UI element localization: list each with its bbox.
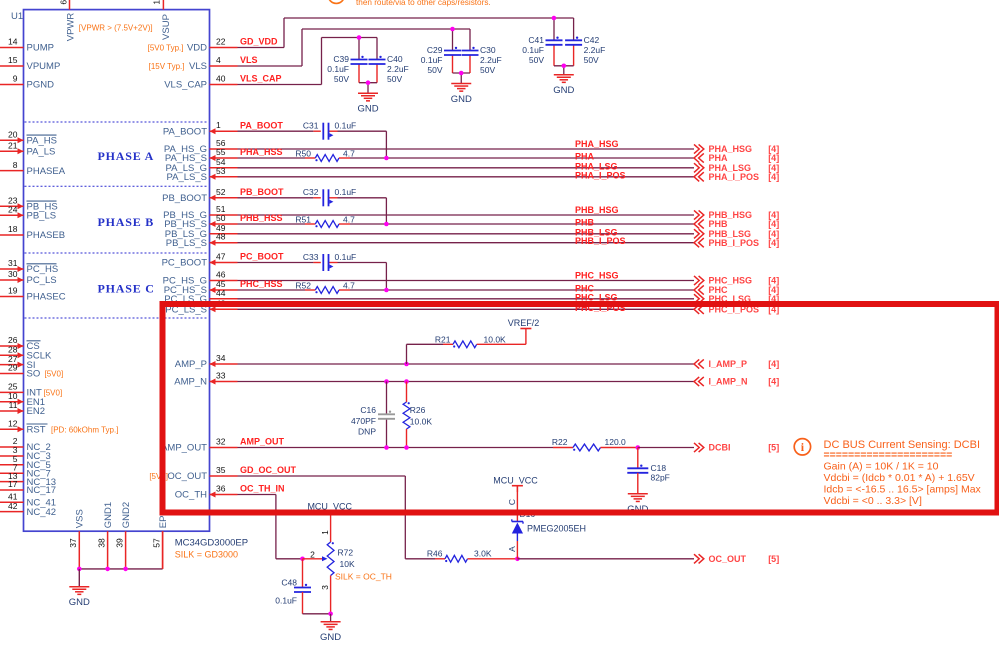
svg-text:EN2: EN2 — [27, 406, 45, 417]
svg-text:GND: GND — [320, 632, 341, 643]
svg-text:C41: C41 — [528, 35, 544, 45]
svg-text:PHC_LSG: PHC_LSG — [575, 292, 618, 302]
svg-text:[5]: [5] — [768, 554, 779, 564]
svg-text:PHB_I_POS: PHB_I_POS — [575, 236, 626, 246]
svg-text:22: 22 — [216, 37, 226, 47]
svg-text:A: A — [507, 546, 517, 552]
svg-text:GD_OC_OUT: GD_OC_OUT — [240, 465, 297, 475]
svg-text:VREF/2: VREF/2 — [508, 318, 540, 328]
svg-text:[VPWR > (7.5V+2V)]: [VPWR > (7.5V+2V)] — [79, 24, 153, 33]
svg-text:SILK = OC_TH: SILK = OC_TH — [335, 572, 392, 582]
svg-text:[4]: [4] — [768, 219, 779, 229]
svg-text:2.2uF: 2.2uF — [387, 64, 409, 74]
svg-text:NC_17: NC_17 — [27, 485, 57, 496]
svg-text:0.1uF: 0.1uF — [335, 121, 357, 131]
svg-text:3.0K: 3.0K — [474, 548, 492, 558]
svg-text:EP: EP — [158, 516, 169, 529]
svg-text:[4]: [4] — [768, 276, 779, 286]
svg-text:VSS: VSS — [75, 509, 86, 528]
svg-text:50V: 50V — [387, 74, 402, 84]
svg-text:[4]: [4] — [768, 153, 779, 163]
svg-text:35: 35 — [216, 465, 226, 475]
svg-text:14: 14 — [8, 37, 18, 47]
svg-text:50: 50 — [216, 213, 226, 223]
svg-text:C: C — [507, 499, 517, 505]
svg-text:33: 33 — [216, 371, 226, 381]
svg-text:44: 44 — [216, 288, 226, 298]
svg-text:[5V0 Typ.]: [5V0 Typ.] — [148, 44, 184, 53]
svg-text:VLS: VLS — [240, 55, 258, 65]
svg-text:NC_42: NC_42 — [27, 507, 57, 518]
svg-text:AMP_P: AMP_P — [175, 359, 207, 370]
svg-text:2.2uF: 2.2uF — [584, 45, 606, 55]
svg-text:PHB: PHB — [575, 218, 595, 228]
svg-text:PHB_HSG: PHB_HSG — [575, 205, 619, 215]
svg-text:0.1uF: 0.1uF — [335, 187, 357, 197]
svg-text:VPWR: VPWR — [65, 13, 76, 42]
svg-text:34: 34 — [216, 353, 226, 363]
svg-text:OC_OUT: OC_OUT — [167, 471, 207, 482]
svg-text:U1: U1 — [11, 11, 23, 22]
svg-text:30: 30 — [8, 269, 18, 279]
svg-text:VSUP: VSUP — [161, 14, 172, 40]
svg-text:9: 9 — [13, 74, 18, 84]
svg-text:PHASE C: PHASE C — [98, 282, 155, 296]
svg-text:OC_OUT: OC_OUT — [709, 554, 747, 564]
svg-text:PA_HS: PA_HS — [27, 136, 57, 147]
svg-text:50V: 50V — [480, 65, 495, 75]
svg-text:40: 40 — [216, 74, 226, 84]
svg-text:GND: GND — [69, 597, 90, 608]
svg-text:38: 38 — [96, 538, 106, 548]
svg-text:PHA_I_POS: PHA_I_POS — [709, 172, 760, 182]
svg-text:MCU_VCC: MCU_VCC — [493, 476, 538, 486]
svg-text:C40: C40 — [387, 54, 403, 64]
svg-text:36: 36 — [216, 484, 226, 494]
svg-text:C32: C32 — [303, 187, 319, 197]
svg-text:0.1uF: 0.1uF — [421, 55, 443, 65]
svg-text:50V: 50V — [427, 65, 442, 75]
svg-text:C30: C30 — [480, 45, 496, 55]
svg-text:C42: C42 — [584, 35, 600, 45]
svg-text:2.2uF: 2.2uF — [480, 55, 502, 65]
svg-text:PGND: PGND — [27, 80, 55, 91]
svg-text:C33: C33 — [303, 252, 319, 262]
svg-text:PHA_HSS: PHA_HSS — [240, 147, 283, 157]
svg-text:31: 31 — [8, 258, 18, 268]
svg-text:55: 55 — [216, 147, 226, 157]
svg-text:48: 48 — [216, 232, 226, 242]
svg-text:then route/via to other caps/r: then route/via to other caps/resistors. — [356, 0, 491, 7]
svg-text:PHB_I_POS: PHB_I_POS — [709, 238, 760, 248]
svg-text:Vdcbi = (Idcb * 0.01 * A) + 1.: Vdcbi = (Idcb * 0.01 * A) + 1.65V — [824, 472, 975, 484]
svg-text:PHA: PHA — [709, 153, 729, 163]
svg-text:[5V0]: [5V0] — [45, 370, 64, 379]
svg-text:VPUMP: VPUMP — [27, 61, 61, 72]
svg-text:C39: C39 — [333, 54, 349, 64]
svg-text:4.7: 4.7 — [343, 215, 355, 225]
svg-text:Idcb = <-16.5 .. 16.5> [amps]: Idcb = <-16.5 .. 16.5> [amps] Max — [824, 484, 982, 496]
svg-text:2: 2 — [310, 549, 315, 559]
svg-text:10.0K: 10.0K — [484, 335, 507, 345]
svg-text:GND1: GND1 — [103, 502, 114, 528]
svg-text:[15V Typ.]: [15V Typ.] — [149, 62, 185, 71]
svg-text:AMP_OUT: AMP_OUT — [161, 443, 207, 454]
svg-text:[4]: [4] — [768, 359, 779, 369]
svg-text:PB_LS_S: PB_LS_S — [166, 238, 207, 249]
svg-text:C48: C48 — [281, 577, 297, 587]
svg-text:DNP: DNP — [358, 426, 376, 436]
svg-text:PHB_HSS: PHB_HSS — [240, 213, 283, 223]
svg-text:18: 18 — [8, 224, 18, 234]
svg-text:PA_LS_S: PA_LS_S — [167, 172, 208, 183]
svg-text:46: 46 — [216, 270, 226, 280]
svg-text:17: 17 — [8, 479, 18, 489]
svg-text:SO: SO — [27, 369, 41, 380]
svg-text:PA_BOOT: PA_BOOT — [163, 126, 207, 137]
svg-text:0.1uF: 0.1uF — [522, 45, 544, 55]
svg-text:PA_LS: PA_LS — [27, 147, 56, 158]
svg-text:3: 3 — [320, 585, 330, 590]
svg-text:21: 21 — [8, 141, 18, 151]
svg-text:PB_BOOT: PB_BOOT — [240, 187, 284, 197]
svg-text:VLS: VLS — [189, 61, 207, 72]
svg-text:PA_BOOT: PA_BOOT — [240, 120, 283, 130]
svg-text:4.7: 4.7 — [343, 149, 355, 159]
svg-text:MC34GD3000EP: MC34GD3000EP — [175, 538, 248, 549]
svg-text:8: 8 — [13, 160, 18, 170]
svg-text:DCBI: DCBI — [709, 443, 731, 453]
svg-text:19: 19 — [8, 286, 18, 296]
svg-text:PC_BOOT: PC_BOOT — [162, 258, 208, 269]
svg-text:PB_BOOT: PB_BOOT — [162, 193, 207, 204]
svg-text:[4]: [4] — [768, 238, 779, 248]
svg-text:57: 57 — [151, 538, 161, 548]
svg-text:PUMP: PUMP — [27, 43, 54, 54]
svg-text:0.1uF: 0.1uF — [275, 595, 297, 605]
svg-text:[5V0]: [5V0] — [44, 389, 63, 398]
svg-text:R21: R21 — [435, 335, 451, 345]
svg-text:32: 32 — [216, 437, 226, 447]
svg-text:PHASEC: PHASEC — [27, 292, 66, 303]
svg-text:82pF: 82pF — [651, 473, 670, 483]
svg-text:39: 39 — [114, 538, 124, 548]
svg-text:PHASE B: PHASE B — [98, 215, 155, 229]
svg-text:GND: GND — [451, 94, 472, 105]
svg-text:120.0: 120.0 — [605, 437, 627, 447]
svg-text:12: 12 — [8, 418, 18, 428]
svg-text:4.7: 4.7 — [343, 281, 355, 291]
svg-text:R51: R51 — [295, 215, 311, 225]
svg-text:R52: R52 — [295, 281, 311, 291]
svg-text:50V: 50V — [334, 74, 349, 84]
svg-text:VLS_CAP: VLS_CAP — [164, 80, 207, 91]
svg-text:37: 37 — [68, 538, 78, 548]
svg-text:R22: R22 — [552, 437, 568, 447]
svg-text:[4]: [4] — [768, 172, 779, 182]
svg-text:52: 52 — [216, 187, 226, 197]
svg-text:I_AMP_P: I_AMP_P — [709, 359, 748, 369]
svg-text:[5]: [5] — [768, 443, 779, 453]
svg-text:0.1uF: 0.1uF — [327, 64, 349, 74]
svg-text:PC_BOOT: PC_BOOT — [240, 252, 284, 262]
svg-text:0.1uF: 0.1uF — [335, 252, 357, 262]
svg-text:PHASEA: PHASEA — [27, 166, 66, 177]
svg-text:PHC_HSG: PHC_HSG — [575, 271, 619, 281]
svg-text:PC_LS: PC_LS — [27, 275, 57, 286]
svg-text:AMP_N: AMP_N — [174, 377, 207, 388]
svg-text:11: 11 — [9, 400, 18, 410]
svg-text:PHA: PHA — [575, 152, 595, 162]
svg-text:=====================: ===================== — [824, 449, 953, 461]
svg-text:I_AMP_N: I_AMP_N — [709, 377, 748, 387]
svg-text:PHA_I_POS: PHA_I_POS — [575, 170, 626, 180]
svg-text:PHC_HSS: PHC_HSS — [240, 279, 283, 289]
svg-text:4: 4 — [216, 55, 221, 65]
svg-text:C16: C16 — [360, 405, 376, 415]
svg-text:Gain (A) = 10K / 1K = 10: Gain (A) = 10K / 1K = 10 — [824, 461, 939, 473]
svg-text:C18: C18 — [651, 463, 667, 473]
svg-text:PB_LS: PB_LS — [27, 211, 57, 222]
svg-text:1: 1 — [320, 530, 330, 535]
svg-text:47: 47 — [216, 252, 226, 262]
svg-text:50V: 50V — [529, 55, 544, 65]
svg-text:Vdcbi = <0 .. 3.3> [V]: Vdcbi = <0 .. 3.3> [V] — [824, 495, 922, 507]
svg-text:GD_VDD: GD_VDD — [240, 37, 278, 47]
svg-text:R46: R46 — [427, 548, 443, 558]
svg-text:GND: GND — [553, 85, 574, 96]
svg-text:53: 53 — [216, 166, 226, 176]
svg-text:[PD: 60kOhm Typ.]: [PD: 60kOhm Typ.] — [51, 425, 118, 434]
svg-text:R26: R26 — [410, 405, 426, 415]
svg-text:24: 24 — [8, 205, 18, 215]
svg-text:1: 1 — [152, 0, 162, 5]
svg-text:OC_TH_IN: OC_TH_IN — [240, 484, 285, 494]
svg-text:PHB: PHB — [709, 219, 729, 229]
svg-text:[4]: [4] — [768, 377, 779, 387]
svg-text:GND: GND — [357, 104, 378, 115]
svg-text:C31: C31 — [303, 121, 319, 131]
svg-text:29: 29 — [8, 363, 18, 373]
svg-text:RST: RST — [27, 424, 46, 435]
svg-text:PHC_HSG: PHC_HSG — [709, 276, 753, 286]
svg-text:42: 42 — [8, 501, 18, 511]
svg-text:VDD: VDD — [187, 43, 207, 54]
svg-text:PC_HS: PC_HS — [27, 264, 59, 275]
svg-text:OC_TH: OC_TH — [175, 490, 207, 501]
svg-text:C29: C29 — [427, 45, 443, 55]
svg-text:470PF: 470PF — [351, 416, 376, 426]
svg-text:R50: R50 — [295, 149, 311, 159]
svg-text:20: 20 — [8, 130, 18, 140]
svg-text:PHA_HSG: PHA_HSG — [575, 139, 619, 149]
svg-text:10.0K: 10.0K — [410, 416, 433, 426]
svg-text:50V: 50V — [584, 55, 599, 65]
svg-text:AMP_OUT: AMP_OUT — [240, 437, 285, 447]
svg-text:15: 15 — [8, 55, 18, 65]
svg-text:PHASE A: PHASE A — [98, 149, 155, 163]
svg-text:PMEG2005EH: PMEG2005EH — [527, 524, 586, 534]
svg-text:VLS_CAP: VLS_CAP — [240, 74, 282, 84]
svg-text:6: 6 — [58, 0, 68, 5]
svg-text:10K: 10K — [340, 559, 355, 569]
svg-text:GND2: GND2 — [121, 502, 132, 528]
svg-text:SILK = GD3000: SILK = GD3000 — [175, 550, 238, 560]
svg-text:R72: R72 — [338, 548, 354, 558]
svg-text:PHASEB: PHASEB — [27, 230, 66, 241]
svg-text:1: 1 — [216, 120, 221, 130]
